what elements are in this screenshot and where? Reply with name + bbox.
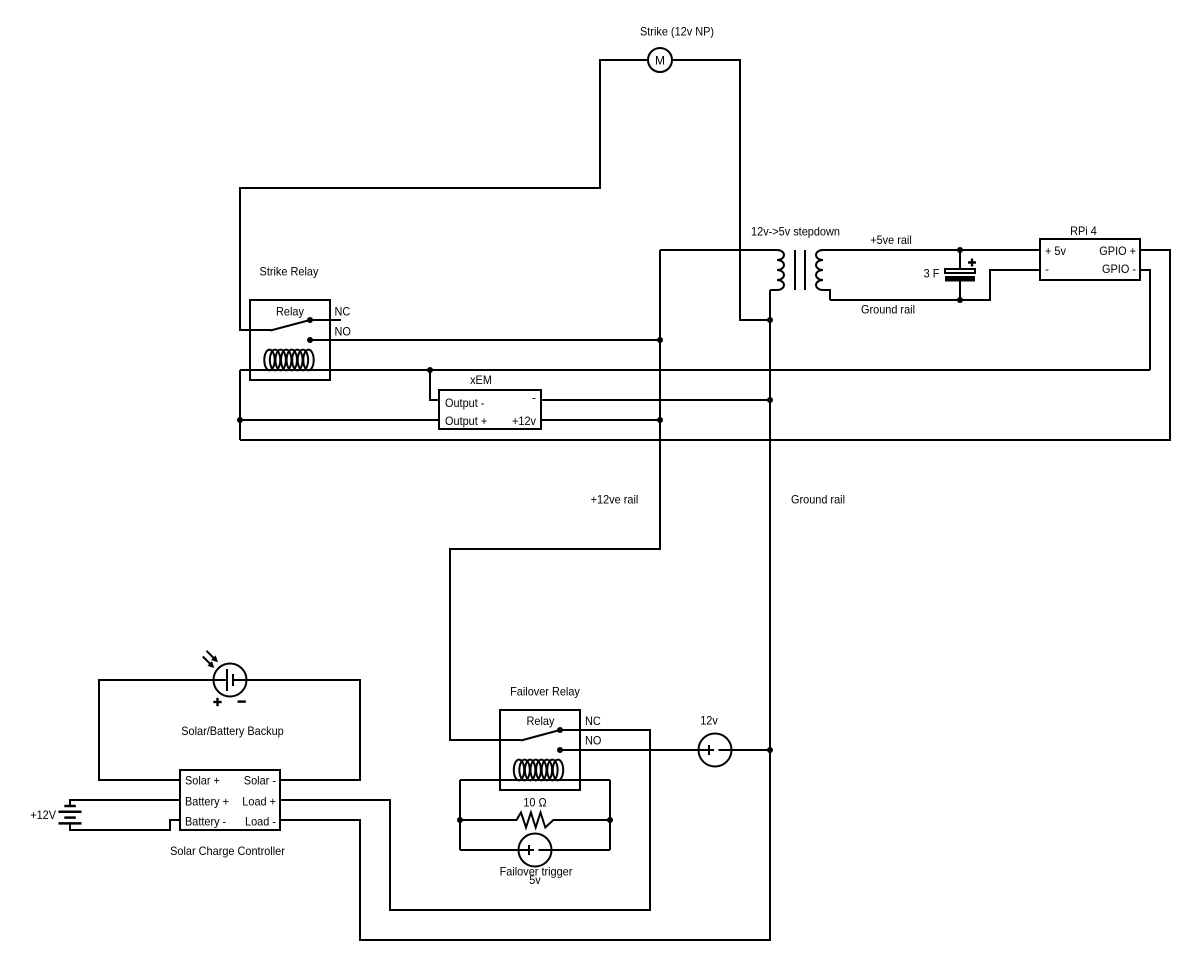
svg-text:RPi 4: RPi 4 [1070, 224, 1097, 238]
pin label: + 5v [1045, 244, 1066, 258]
svg-text:GPIO -: GPIO - [1102, 262, 1136, 276]
wire: coil left lead down to bottom rail [239, 370, 241, 440]
transformer TR1 secondary winding [816, 250, 830, 300]
pin label: Battery - [185, 815, 226, 829]
wire: GPIO- down to coil row [1140, 270, 1150, 370]
node: junction +12v pin / +12 rail [657, 417, 663, 423]
svg-text:Load +: Load + [242, 795, 276, 809]
wire: solar loop left [99, 680, 214, 780]
pin label: +12v [512, 414, 536, 428]
label: solar plus [213, 698, 221, 706]
label: Strike Relay [260, 265, 319, 279]
label: Failover trigger [500, 865, 573, 879]
svg-text:xEM: xEM [470, 373, 492, 387]
strike relay NO contact [307, 337, 313, 343]
capacitor C1 3F [945, 250, 975, 300]
label: RPi 4 [1070, 224, 1097, 238]
node: junction NO wire / +12 rail [657, 337, 663, 343]
pin label: Output - [445, 396, 484, 410]
wire: relay coil row (GPIO- net) [240, 369, 1150, 371]
svg-text:+ 5v: + 5v [1045, 244, 1066, 258]
pin label: NO (strike) [335, 325, 351, 339]
wire: failover coil right vertical [609, 780, 611, 850]
wire: strike NO to +12 rail [310, 339, 660, 341]
svg-text:Output +: Output + [445, 414, 487, 428]
node: junction motor lead / ground rail [767, 317, 773, 323]
pin label: xEM minus [532, 391, 536, 405]
label: xEM [470, 373, 492, 387]
pin label: Battery + [185, 795, 229, 809]
svg-text:Failover Relay: Failover Relay [510, 685, 580, 699]
node: junction coil row / Output- drop [427, 367, 433, 373]
node: junction Output+ / bottom rail [237, 417, 243, 423]
svg-text:NC: NC [335, 305, 351, 319]
wire: ground rail to RPi minus [830, 270, 1040, 300]
label: solar minus [238, 700, 246, 702]
resistor R1 10 Ohm [460, 813, 610, 828]
label: Solar Charge Controller [170, 844, 285, 858]
wire: battery minus to controller [70, 820, 180, 830]
svg-text:Load -: Load - [245, 815, 276, 829]
wire: xEM +12v to +12 rail [541, 419, 660, 421]
svg-text:Solar Charge Controller: Solar Charge Controller [170, 844, 285, 858]
pin label: Solar - [244, 774, 276, 788]
solar cell PV1 [214, 664, 247, 697]
svg-text:12v->5v stepdown: 12v->5v stepdown [751, 225, 840, 239]
node: junction resistor right [607, 817, 613, 823]
transformer TR1 primary winding [770, 250, 784, 290]
svg-text:+12v: +12v [512, 414, 536, 428]
wire: failover coil left vertical [459, 780, 461, 850]
svg-text:5v: 5v [529, 873, 541, 887]
solar cell light arrows [203, 651, 218, 668]
pin label: NO (failover) [585, 734, 601, 748]
svg-text:M: M [655, 54, 665, 68]
pin label: Output + [445, 414, 487, 428]
failover relay switch blade [521, 730, 560, 741]
node: junction +5ve rail / capacitor [957, 247, 963, 253]
wire: failover coil row [460, 779, 610, 781]
label: Relay (failover) [527, 714, 555, 728]
wire: solar loop right [247, 680, 361, 780]
pin label: minus [1045, 262, 1049, 276]
wire: +12 rail top lead to transformer primary [660, 249, 777, 251]
wire: failover NO to 12v source [560, 749, 700, 751]
svg-text:+5ve rail: +5ve rail [870, 233, 912, 247]
svg-text:Strike Relay: Strike Relay [260, 265, 319, 279]
wire: motor left lead to strike relay common [240, 60, 648, 330]
label: 12v [700, 714, 718, 728]
label: 3 F [924, 267, 940, 281]
label: Ground rail (middle) [791, 493, 845, 507]
svg-text:-: - [1045, 262, 1049, 276]
svg-text:NO: NO [335, 325, 351, 339]
label: capacitor plus sign [968, 259, 976, 267]
wire: battery plus to controller [70, 800, 180, 805]
svg-text:NC: NC [585, 714, 601, 728]
strike relay K1 box [250, 300, 330, 380]
strike relay NC contact [307, 317, 341, 323]
label: 10 Ohm [523, 796, 546, 810]
battery BT1 +12V [59, 806, 82, 823]
label: +12V [30, 808, 56, 822]
failover relay K2 box [500, 710, 580, 790]
label: 5v [529, 873, 541, 887]
12v source V1 [697, 734, 770, 767]
pin label: Load + [242, 795, 276, 809]
failover relay NC contact [557, 727, 563, 733]
pin label: Load - [245, 815, 276, 829]
svg-text:Strike (12v NP): Strike (12v NP) [640, 25, 714, 39]
label: Failover Relay [510, 685, 580, 699]
svg-text:NO: NO [585, 734, 601, 748]
failover relay coil [514, 760, 563, 781]
strike relay switch blade [271, 320, 311, 331]
label: +5ve rail [870, 233, 912, 247]
wire: +5ve rail [823, 249, 1040, 251]
failover relay NO contact [557, 747, 563, 753]
pin label: GPIO + [1099, 244, 1136, 258]
label: Solar/Battery Backup [181, 724, 284, 738]
transformer TR1 core [795, 250, 805, 290]
RPi 4 box U1 [1040, 239, 1140, 280]
pin label: NC (strike) [335, 305, 351, 319]
svg-text:-: - [532, 391, 536, 405]
wire: xEM minus to ground rail [541, 399, 770, 401]
pin label: GPIO - [1102, 262, 1136, 276]
node: junction 12v source / ground rail [767, 747, 773, 753]
wire: ground rail vertical to Load- [280, 290, 770, 940]
svg-text:3 F: 3 F [924, 267, 940, 281]
svg-text:Relay: Relay [527, 714, 555, 728]
svg-text:Solar -: Solar - [244, 774, 276, 788]
strike relay coil [264, 350, 313, 371]
wire: +12ve rail vertical to failover relay common [450, 250, 660, 740]
wire: Output+ to bottom rail [240, 419, 439, 421]
svg-text:GPIO +: GPIO + [1099, 244, 1136, 258]
svg-text:Ground rail: Ground rail [861, 303, 915, 317]
svg-text:Battery +: Battery + [185, 795, 229, 809]
wire: failover NC to Load+ [280, 730, 650, 910]
svg-text:Ground rail: Ground rail [791, 493, 845, 507]
svg-text:Relay: Relay [276, 305, 304, 319]
label: +12ve rail [591, 493, 639, 507]
svg-text:+12V: +12V [30, 808, 56, 822]
motor M strike symbol [648, 48, 672, 72]
label: Ground rail (top) [861, 303, 915, 317]
solar charge controller U3 box [180, 770, 280, 830]
wire: coil row to Output- [430, 370, 439, 400]
svg-text:Output -: Output - [445, 396, 484, 410]
failover trigger source V2 [460, 834, 610, 867]
wire: motor right lead down to ground rail [672, 60, 770, 320]
svg-text:10 Ω: 10 Ω [523, 796, 546, 810]
node: junction resistor left [457, 817, 463, 823]
svg-text:+12ve rail: +12ve rail [591, 493, 639, 507]
svg-text:Solar +: Solar + [185, 774, 220, 788]
pin label: NC (failover) [585, 714, 601, 728]
svg-text:Battery -: Battery - [185, 815, 226, 829]
pin label: Solar + [185, 774, 220, 788]
label: 12v->5v stepdown [751, 225, 840, 239]
label: Strike (12v NP) [640, 25, 714, 39]
svg-text:12v: 12v [700, 714, 718, 728]
node: junction ground rail / xEM minus [767, 397, 773, 403]
svg-text:Solar/Battery Backup: Solar/Battery Backup [181, 724, 284, 738]
wire: GPIO+ to relay coil bottom rail [240, 250, 1170, 440]
node: junction ground rail / capacitor [957, 297, 963, 303]
label: Relay (strike) [276, 305, 304, 319]
xEM box U2 [439, 390, 541, 429]
